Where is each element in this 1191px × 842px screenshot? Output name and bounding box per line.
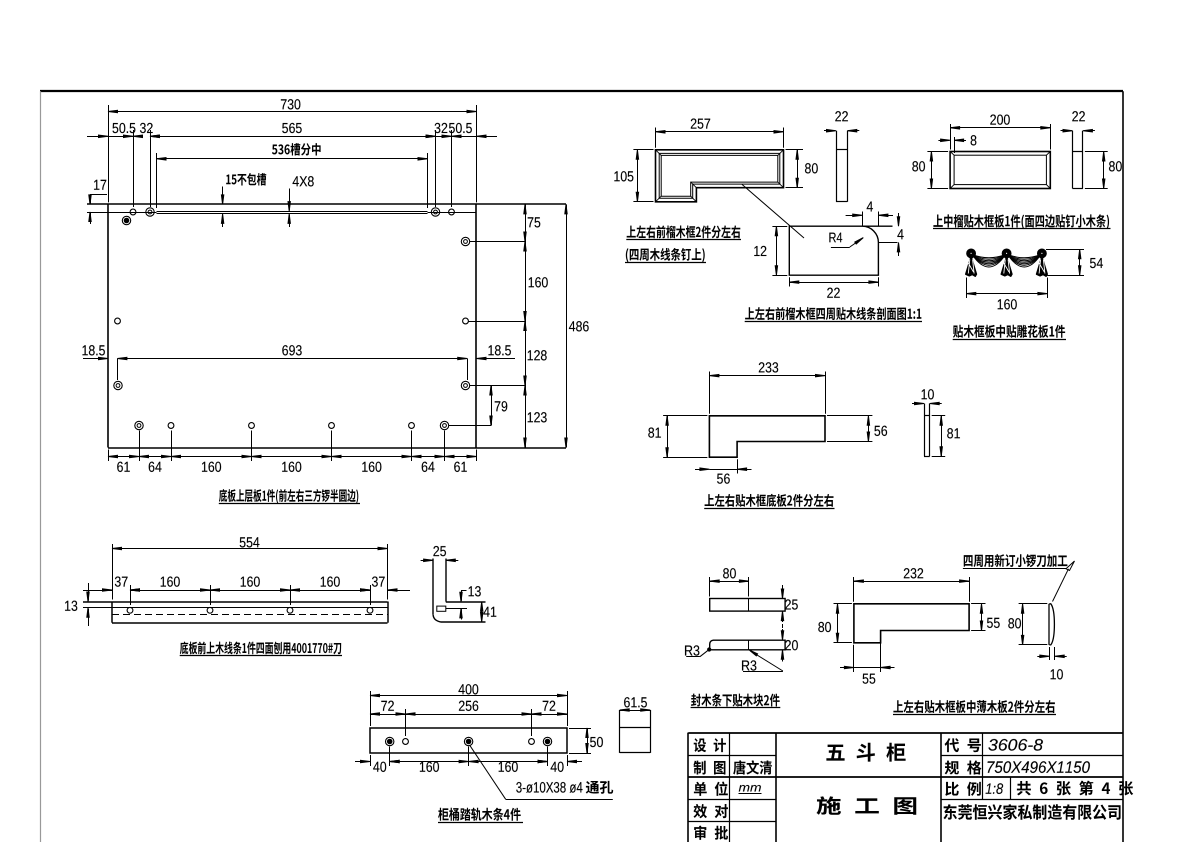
title: construction drawing: [817, 796, 917, 814]
L-part inner moulding line 1: [659, 153, 780, 198]
dim 232: [853, 577, 855, 602]
mitre corner diagonals: [656, 150, 662, 156]
leader to section detail: [742, 184, 804, 238]
title: company name: [943, 804, 1120, 820]
dim 25 section: [421, 560, 433, 562]
dim 22 end bar: [824, 130, 835, 132]
dim text 536 groove centered: [272, 143, 321, 155]
label: front frame part line1: [627, 225, 741, 238]
dim 12: [772, 226, 787, 228]
swag drape bands: [972, 255, 1006, 258]
label underline: [219, 503, 360, 505]
title cell: scale: [945, 782, 981, 796]
section tongue line 13: [446, 608, 467, 610]
label: front frame part line2: [626, 248, 705, 262]
dim 80 blocks: [709, 577, 711, 597]
dim 10 strip: [1049, 647, 1051, 660]
dim 22 end bar: [1061, 130, 1072, 132]
dim 233: [709, 372, 711, 414]
view: top/left/right front frame L-part outer outline: [656, 150, 784, 202]
drawing frame: right border: [1122, 91, 1124, 842]
bottom dim chain 61/64/160x3/64/61: [139, 431, 141, 462]
title cell: approved: [694, 826, 728, 840]
view: frame bottom board L outline: [709, 416, 825, 457]
view: drawer runner strip outline: [370, 728, 567, 753]
leader 4X8 groove: [289, 189, 291, 211]
dim 56 bottom: [737, 459, 739, 473]
dim chain 37/160/160/160/37: [130, 585, 132, 605]
strip holes: [127, 607, 133, 613]
label underline: [625, 262, 706, 264]
L-part inner moulding line 2: [661, 155, 778, 196]
note leader: [1053, 569, 1069, 602]
bar2 mid line: [748, 640, 750, 650]
section notch square: [437, 606, 446, 611]
dim 81 left: [663, 415, 707, 417]
title: product name wu dou gui: [826, 743, 905, 762]
note triangle pointer: [1066, 561, 1075, 571]
thin board 10x81: [924, 404, 926, 457]
view: bottom board upper-layer panel outline: [87, 203, 566, 205]
label underline: [704, 508, 834, 510]
dim 80 left: [927, 151, 948, 153]
section bottom edge: [441, 621, 486, 623]
groove line 17 from top edge: [87, 212, 157, 214]
left side holes: [115, 318, 121, 324]
dim 4 top: [846, 215, 862, 217]
dim 730: [108, 105, 110, 202]
drawing frame: top border: [40, 90, 1123, 92]
label: bottom board upper layer: [219, 489, 358, 503]
moulding end section outline: [432, 559, 434, 615]
runner end section: [619, 710, 621, 753]
dim 25 bar1: [782, 585, 784, 598]
note rout all four edges: [964, 554, 1068, 567]
dim 20 bar2: [782, 629, 784, 639]
title cell: checked: [693, 804, 727, 818]
leader 15 not incl. groove: [222, 187, 224, 204]
swag rosette circles: [967, 249, 976, 258]
dim 554: [112, 544, 114, 600]
dim 13 section: [461, 590, 467, 592]
countersunk hole top-left: [122, 216, 130, 224]
R3 leader top-left: [686, 656, 700, 658]
dim chain 72/256/72: [405, 709, 407, 736]
dim 160 swag: [966, 278, 968, 299]
block bar 2 (20): [710, 640, 785, 650]
label: top middle frame board: [933, 214, 1109, 229]
title cell: spec: [945, 760, 982, 774]
title: sheet 4 of 6: [1017, 781, 1133, 796]
label underline: [893, 714, 1056, 716]
dim 55 bottom: [853, 645, 855, 672]
dim 8: [954, 137, 956, 153]
view: top middle frame board outline: [950, 152, 1050, 189]
title cell: drawn by name: [733, 760, 772, 774]
R3 leader bottom: [743, 671, 783, 673]
dim 79: [491, 386, 493, 426]
dim 55 right: [971, 603, 985, 605]
title cell: unit: [694, 782, 728, 796]
title cell: design: [694, 738, 726, 752]
dim 50.5 / 32 left, 565, 32 / 50.5 right: [133, 130, 135, 207]
dim 400: [370, 691, 372, 726]
section chamfer curve: [433, 615, 440, 622]
runner holes: [386, 737, 394, 745]
label underline: [438, 822, 523, 824]
right side holes: [461, 237, 469, 245]
dim 54 swag: [1046, 249, 1084, 251]
dim 80 right: [1085, 151, 1108, 153]
label: middle thin board: [893, 700, 1054, 713]
block bar 1 (25): [710, 599, 785, 612]
bottom hole row: [135, 421, 143, 429]
dim 486 overall height: [566, 204, 568, 447]
view: middle thin board L outline: [854, 604, 969, 643]
dim 13 strip left: [88, 583, 90, 601]
dim 4 right: [898, 213, 900, 225]
strip inner line: [83, 607, 388, 609]
label underline: [691, 707, 781, 709]
dashed link between bars: [782, 624, 784, 636]
view: bottom-front top wood strip outline: [83, 601, 388, 603]
dim column 75/160/128/123: [525, 204, 527, 447]
dim 105: [633, 149, 653, 151]
dim 22 section: [789, 277, 791, 286]
bar1 mid extension: [748, 599, 750, 612]
dim 80 left: [834, 603, 852, 605]
dim text 15 excl groove: [226, 173, 266, 186]
top hole row circles: [130, 209, 136, 215]
label underline: [745, 321, 922, 323]
dim 257: [655, 128, 657, 148]
R4 leader: [831, 247, 850, 249]
label: drawer runner strip: [438, 808, 520, 821]
title cell: code: [945, 738, 981, 752]
label: section detail title: [745, 307, 921, 320]
extension at 4 below arc: [878, 242, 897, 244]
extension: arc start vertical: [862, 212, 864, 227]
inner bevel rectangle: [954, 155, 1046, 184]
title cell: drawn: [693, 761, 725, 775]
strip dashed center line: [112, 614, 388, 616]
hole leader lines to right dims: [470, 241, 525, 243]
drawing frame: left border: [40, 91, 42, 842]
label: frame bottom board: [705, 494, 834, 507]
dim 536 groove centered: [156, 153, 158, 208]
thin strip with routed edge: [1048, 604, 1050, 645]
label underline: [180, 655, 342, 657]
dim 10 thin board: [912, 403, 923, 405]
dim chain 40/160/160/40: [389, 747, 391, 767]
bevel corner diagonals: [950, 152, 954, 156]
dim 80 strip: [1019, 603, 1048, 605]
label underline: [933, 228, 1111, 230]
dim 41 section: [481, 602, 483, 622]
label: carved board: [953, 325, 1065, 338]
dim 81 thin board: [932, 415, 946, 417]
label: bottom front top strip: [180, 641, 341, 654]
swag tassels: [966, 257, 977, 277]
label: sealing strip blocks: [691, 694, 780, 707]
label underline: [626, 239, 741, 241]
title values (oblique CAD style): [988, 739, 1043, 751]
label underline: [953, 339, 1066, 341]
L-part end bar: [836, 131, 838, 202]
dim 80 right of L-part: [786, 149, 804, 151]
dim 200: [950, 124, 952, 150]
groove 4X8 double line: [157, 211, 428, 213]
title block grid: [688, 732, 1123, 734]
section tongue top edge: [446, 601, 486, 603]
leader text through-hole: [586, 781, 613, 794]
200 panel end bar: [1072, 131, 1074, 189]
dim 56 right: [827, 415, 872, 417]
dim 17 top left: [90, 194, 107, 196]
dim 61.5: [620, 710, 651, 712]
dim chain 18.5 / 693 / 18.5: [117, 359, 119, 381]
section detail outline with R4 corner: [789, 226, 892, 275]
dim 50 runner: [569, 728, 591, 730]
extension: right vertical above top: [878, 212, 880, 227]
leader 3-o10X38 o4 through hole: [470, 746, 506, 800]
